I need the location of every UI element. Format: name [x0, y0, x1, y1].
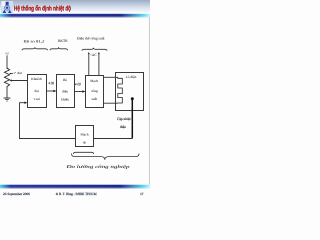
- svg-text:Bộ so θ1,2: Bộ so θ1,2: [24, 39, 45, 43]
- svg-text:công: công: [91, 89, 98, 93]
- svg-text:điện: điện: [120, 125, 126, 129]
- svg-text:suất: suất: [91, 97, 97, 101]
- label Cap nhiet dien: [117, 117, 131, 129]
- thermocouple probe: [131, 97, 134, 138]
- wiper leader arrow: [9, 73, 13, 75]
- wire resistor to ground: [6, 88, 8, 98]
- header band: [0, 0, 150, 13]
- wire probe to measurement: [94, 138, 133, 140]
- overbrace 2: [50, 47, 68, 50]
- svg-text:17: 17: [140, 192, 144, 196]
- svg-text:~AC: ~AC: [90, 53, 97, 57]
- AC wire left: [88, 52, 90, 76]
- footer stripe: [0, 185, 150, 189]
- svg-text:ε (t): ε (t): [49, 81, 55, 85]
- svg-text:u (t): u (t): [75, 82, 82, 86]
- svg-text:Bộ: Bộ: [63, 78, 67, 82]
- wire heater bottom to power: [104, 102, 118, 104]
- svg-text:Hệ thống ổn định nhiệt độ: Hệ thống ổn định nhiệt độ: [14, 5, 71, 13]
- block measurement Mach do: [76, 126, 94, 147]
- svg-text:Cặp nhiệt: Cặp nhiệt: [117, 117, 131, 121]
- ground: [4, 98, 11, 101]
- logo icon: [1, 1, 13, 13]
- svg-text:© B. T. Hùng - ĐHBK TP.HCM: © B. T. Hùng - ĐHBK TP.HCM: [56, 192, 97, 196]
- svg-text:Lò điện: Lò điện: [126, 75, 137, 79]
- overbrace 1: [22, 47, 48, 50]
- wire supply to resistor: [6, 55, 8, 69]
- bracket under Mach do: [74, 152, 94, 154]
- svg-text:Khuếch: Khuếch: [31, 77, 42, 81]
- svg-text:điều: điều: [62, 90, 68, 94]
- svg-text:+U: +U: [5, 51, 10, 55]
- potentiometer resistor: [4, 68, 9, 88]
- svg-text:BKTB: BKTB: [58, 39, 68, 43]
- furnace box Lo dien: [116, 73, 144, 111]
- underbrace: [72, 154, 140, 160]
- block power Mach cong suat: [86, 76, 104, 108]
- svg-text:đại: đại: [35, 89, 39, 93]
- overbrace 3: [82, 48, 107, 51]
- wire measurement feedback left: [20, 103, 76, 139]
- svg-text:khiển: khiển: [61, 97, 69, 101]
- block amplifier Khuech dai v.sai: [28, 75, 47, 108]
- block controller Bo dieu khien: [57, 75, 75, 108]
- svg-text:Điện thế công suất: Điện thế công suất: [77, 36, 105, 40]
- heater element: [118, 77, 123, 103]
- AC wire right: [98, 52, 100, 76]
- svg-text:t° đặt: t° đặt: [14, 71, 23, 75]
- wire amp to controller: [47, 90, 57, 92]
- header stripe: [0, 14, 150, 18]
- svg-text:26 September 2006: 26 September 2006: [3, 192, 30, 196]
- svg-text:đo: đo: [83, 141, 87, 145]
- wire power to heater top: [104, 76, 118, 78]
- wire controller to power: [75, 90, 86, 92]
- svg-text:Đo lường công nghiệp: Đo lường công nghiệp: [65, 164, 131, 169]
- svg-text:Mạch: Mạch: [90, 79, 98, 83]
- feedback arrowhead: [24, 102, 27, 104]
- slide right border: [148, 17, 150, 185]
- svg-text:v.sai: v.sai: [34, 97, 40, 101]
- svg-text:Mạch: Mạch: [81, 133, 89, 137]
- wiper wire: [9, 80, 27, 82]
